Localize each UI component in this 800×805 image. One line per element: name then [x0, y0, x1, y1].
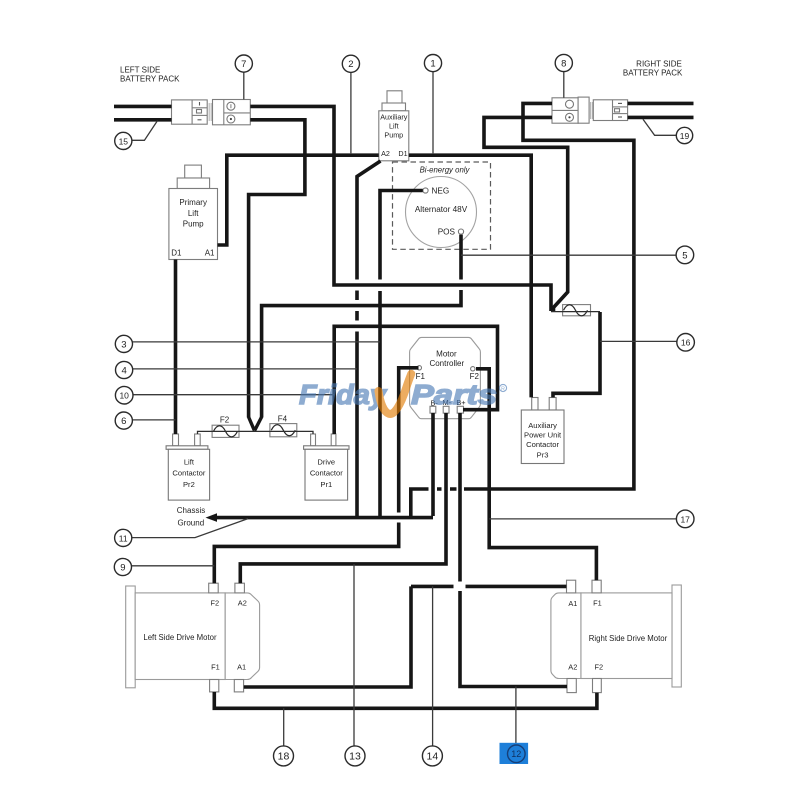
svg-text:Parts: Parts — [411, 379, 497, 410]
pin labels A2 D1 of auxiliary pump — [381, 149, 408, 158]
svg-text:11: 11 — [119, 533, 128, 543]
wire alternator POS to contactor feed arrow — [262, 235, 461, 418]
primary lift pump M1 — [169, 165, 218, 259]
svg-text:Contactor: Contactor — [526, 440, 559, 449]
label motor controller — [429, 349, 464, 367]
svg-text:Auxiliary: Auxiliary — [380, 113, 408, 122]
wire alternator NEG to chassis ground bus — [380, 191, 423, 517]
callout line 11 — [132, 519, 248, 538]
svg-text:Pump: Pump — [183, 220, 204, 229]
svg-text:Contactor: Contactor — [172, 469, 205, 478]
chassis ground arrow head — [206, 513, 218, 522]
auxiliary lift pump M2 — [379, 91, 409, 161]
wire left battery negative to contactor feed arrow — [249, 120, 305, 418]
svg-text:14: 14 — [427, 751, 439, 763]
callout line 1 — [432, 72, 434, 154]
callout line 2 — [350, 72, 352, 153]
svg-text:A2: A2 — [238, 598, 247, 607]
wire left battery pack leads — [114, 106, 172, 119]
svg-text:Motor: Motor — [436, 349, 457, 358]
svg-text:A1: A1 — [205, 249, 215, 258]
svg-text:12: 12 — [511, 749, 521, 759]
drive contactor Pr1 — [304, 434, 349, 500]
label drive contactor Pr1 — [310, 458, 343, 490]
right side drive motor M4 — [551, 580, 681, 692]
callout line 5 — [461, 254, 676, 256]
wire controller M- to left motor A2 — [240, 413, 446, 583]
callout circle 15 — [115, 132, 132, 149]
svg-text:RIGHT SIDE: RIGHT SIDE — [636, 60, 682, 69]
callout circle 14 — [422, 746, 442, 766]
wire primary pump D1 to lift contactor Pr2 — [174, 260, 178, 435]
svg-text:Lift: Lift — [184, 458, 195, 467]
callout line 13 — [353, 564, 355, 746]
svg-text:BATTERY PACK: BATTERY PACK — [623, 69, 683, 78]
wire controller F2 to right motor F1 — [476, 369, 596, 580]
svg-text:Chassis: Chassis — [177, 506, 205, 515]
svg-text:17: 17 — [680, 514, 690, 524]
svg-text:4: 4 — [121, 365, 126, 376]
wire left motor F1 to right motor F2 — [214, 692, 597, 708]
svg-text:A2: A2 — [381, 149, 390, 158]
connector J2 (left battery pack connector, vehicle half with screw terminals) — [213, 100, 251, 125]
svg-text:Friday: Friday — [299, 379, 388, 410]
callout circle 9 — [114, 558, 131, 575]
fuse F3 (auxiliary power unit circuit) — [563, 305, 591, 316]
svg-text:BATTERY PACK: BATTERY PACK — [120, 75, 180, 84]
highlight box for callout 12 — [500, 743, 529, 764]
wire auxiliary pump A2 to chassis ground bus — [357, 161, 381, 517]
svg-text:Lift: Lift — [389, 122, 399, 131]
wire primary pump A1 to auxiliary pump A2 — [218, 155, 379, 245]
fuse F2 — [212, 425, 239, 437]
svg-text:NEG: NEG — [432, 186, 450, 195]
callout circle 4 — [116, 361, 133, 378]
wire right battery positive to fuse F3 — [484, 117, 568, 311]
callout line 12 — [515, 687, 517, 748]
label lift contactor Pr2 — [172, 458, 205, 490]
wire controller F1 to left motor F2 — [214, 368, 418, 583]
label auxiliary power unit contactor Pr3 — [524, 421, 562, 460]
wire controller B+ to right motor A2 — [460, 413, 567, 687]
svg-text:7: 7 — [241, 59, 246, 70]
callout line 4 — [133, 368, 357, 370]
svg-text:Right Side Drive Motor: Right Side Drive Motor — [589, 634, 668, 643]
callout line 15 — [132, 121, 158, 141]
bi-energy only dashed enclosure — [393, 162, 491, 249]
svg-text:Ground: Ground — [177, 519, 204, 528]
callout circle 12 (highlighted) — [508, 745, 526, 763]
FridayParts watermark — [299, 374, 507, 414]
svg-text:18: 18 — [278, 751, 290, 763]
svg-text:6: 6 — [121, 416, 126, 427]
svg-text:16: 16 — [681, 338, 691, 348]
svg-text:Bi-energy only: Bi-energy only — [420, 166, 471, 175]
callout line 10 — [133, 394, 334, 396]
callout circle 8 — [555, 54, 572, 71]
svg-text:Pr3: Pr3 — [537, 451, 549, 460]
label auxiliary lift pump — [380, 113, 408, 140]
callout circle 11 — [115, 529, 132, 546]
wire right battery negative to chassis ground — [411, 103, 634, 516]
wire auxiliary pump D1 to contactor Pr3 coil — [409, 155, 531, 397]
svg-text:LEFT SIDE: LEFT SIDE — [120, 66, 160, 75]
svg-text:5: 5 — [682, 250, 687, 261]
svg-text:Lift: Lift — [188, 209, 199, 218]
motor controller U1 — [410, 337, 481, 418]
svg-text:R: R — [501, 386, 505, 392]
lift contactor Pr2 — [166, 434, 210, 500]
fuse F4 — [270, 424, 297, 437]
left side drive motor M3 — [126, 583, 260, 692]
svg-text:2: 2 — [348, 59, 353, 70]
svg-text:F2: F2 — [210, 598, 219, 607]
callout line 6 — [132, 419, 175, 421]
svg-text:Contactor: Contactor — [310, 469, 343, 478]
label left side battery pack — [120, 66, 180, 84]
svg-text:9: 9 — [120, 562, 125, 573]
label right side battery pack — [623, 60, 683, 78]
svg-text:Drive: Drive — [317, 458, 335, 467]
svg-text:F1: F1 — [593, 598, 602, 607]
pin labels D1 A1 of primary pump — [171, 249, 215, 258]
svg-text:1: 1 — [430, 59, 435, 70]
callout circle 2 — [342, 55, 359, 72]
connector J4 (right battery pack connector, battery half) — [593, 100, 627, 121]
callout line 18 — [283, 708, 285, 745]
wire left battery positive to fuse F3 node — [250, 106, 551, 311]
callout circle 13 — [345, 746, 365, 766]
svg-text:F2: F2 — [594, 662, 603, 671]
pin labels A1 F1 A2 F2 of right motor — [568, 598, 603, 671]
wire controller B- to chassis ground bus — [431, 413, 435, 516]
svg-text:D1: D1 — [171, 249, 182, 258]
wire drive contactor Pr1 to controller B+ — [334, 326, 497, 434]
callout circle 10 — [115, 386, 133, 404]
pin labels B- M- B+ of controller — [431, 398, 466, 407]
callout line 3 — [133, 341, 381, 343]
svg-text:13: 13 — [349, 751, 361, 763]
connector J3 (right battery pack connector, vehicle half with screw terminals) — [552, 97, 592, 123]
svg-text:Primary: Primary — [179, 198, 207, 207]
svg-text:Pump: Pump — [384, 131, 403, 140]
callout circle 1 — [424, 55, 441, 72]
callout circle 6 — [115, 412, 132, 429]
svg-text:D1: D1 — [398, 149, 407, 158]
arrow into F2-F4 fuse link — [249, 417, 262, 431]
svg-text:F4: F4 — [278, 414, 288, 423]
label chassis ground — [177, 506, 205, 528]
callout line 7 — [243, 72, 245, 99]
svg-text:10: 10 — [119, 391, 129, 401]
svg-text:A1: A1 — [237, 663, 246, 672]
svg-text:A2: A2 — [568, 663, 577, 672]
callout circle 19 — [676, 127, 692, 143]
callout circle 18 — [274, 746, 294, 766]
callout circle 5 — [676, 246, 694, 264]
callout line 17 — [489, 518, 676, 520]
wire right battery pack leads — [628, 103, 694, 117]
svg-text:3: 3 — [121, 339, 126, 350]
callout line 19 — [643, 119, 676, 135]
callout circle 17 — [676, 510, 694, 528]
callout circle 7 — [235, 55, 252, 72]
chassis ground bus wire — [215, 516, 433, 520]
callout line 14 — [432, 586, 434, 745]
svg-text:A1: A1 — [568, 599, 577, 608]
callout line 9 — [132, 565, 215, 567]
svg-text:8: 8 — [561, 58, 566, 69]
callout line 8 — [563, 72, 565, 98]
svg-text:Alternator 48V: Alternator 48V — [415, 205, 468, 214]
wire through fuse F3 — [551, 311, 600, 313]
svg-text:F2: F2 — [220, 416, 230, 425]
svg-text:Controller: Controller — [429, 359, 464, 368]
auxiliary power unit contactor Pr3 — [521, 398, 564, 464]
wire fuse F3 to contactor Pr3 — [553, 312, 600, 397]
wire lift contactor Pr2 through F2 and F4 to drive contactor Pr1 — [198, 431, 314, 434]
callout circle 16 — [677, 334, 695, 352]
svg-text:15: 15 — [119, 136, 129, 146]
wire left motor A1 to right motor A1 — [244, 586, 567, 687]
svg-text:19: 19 — [680, 131, 690, 141]
svg-text:Left Side Drive Motor: Left Side Drive Motor — [143, 633, 217, 642]
callout circle 3 — [115, 335, 132, 352]
svg-text:Pr1: Pr1 — [320, 480, 332, 489]
alternator G1 (48V, bi-energy only) — [406, 177, 477, 248]
callout line 16 — [600, 340, 677, 342]
label primary lift pump — [179, 198, 207, 229]
pin labels F2 A2 F1 A1 of left motor — [210, 598, 246, 671]
svg-text:Auxiliary: Auxiliary — [528, 421, 557, 430]
svg-text:F1: F1 — [211, 662, 220, 671]
connector J1 (left battery pack connector, battery half) — [172, 100, 212, 124]
svg-text:Pr2: Pr2 — [183, 480, 195, 489]
svg-text:POS: POS — [438, 228, 456, 237]
svg-text:Power Unit: Power Unit — [524, 431, 562, 440]
